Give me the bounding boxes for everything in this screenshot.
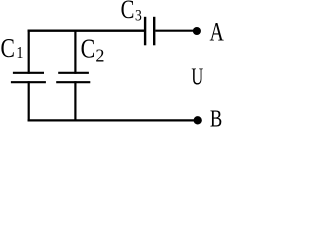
svg-text:C: C (121, 0, 135, 25)
node B terminal dot (194, 116, 202, 124)
wire C2 bottom lead (74, 81, 76, 121)
svg-text:A: A (209, 17, 224, 46)
svg-text:U: U (191, 63, 203, 90)
svg-text:B: B (210, 105, 222, 129)
capacitor C2 (56, 73, 90, 82)
wire C2 top lead (74, 30, 76, 74)
wire bottom horizontal (node B rail) (28, 119, 195, 121)
wire top horizontal (node A rail) (28, 30, 145, 32)
label C1 (0, 34, 23, 64)
wire left vertical upper (C1 top lead) (28, 30, 30, 74)
node A terminal dot (193, 27, 201, 35)
capacitor C1 (11, 73, 46, 82)
wire left vertical lower (C1 bottom lead) (28, 81, 30, 121)
wire C3 to node A (155, 30, 194, 32)
capacitor C3 (145, 17, 154, 46)
svg-text:C: C (81, 34, 96, 64)
svg-text:1: 1 (16, 44, 23, 63)
label C2 (81, 34, 105, 65)
svg-text:3: 3 (135, 8, 142, 25)
svg-text:C: C (0, 34, 14, 64)
svg-text:2: 2 (95, 45, 104, 65)
label C3 (121, 0, 142, 25)
